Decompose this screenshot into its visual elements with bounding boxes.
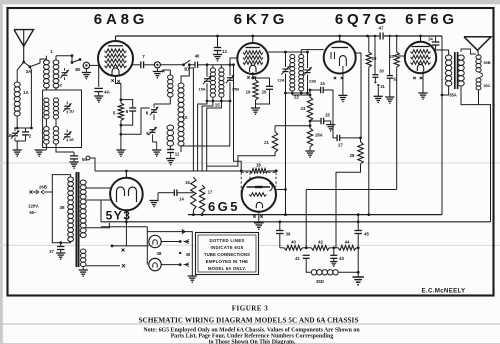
svg-text:44: 44 bbox=[345, 240, 350, 245]
svg-text:35A: 35A bbox=[449, 93, 457, 98]
svg-text:30: 30 bbox=[379, 69, 384, 74]
svg-text:38: 38 bbox=[157, 251, 162, 256]
svg-text:10: 10 bbox=[182, 115, 188, 120]
svg-text:47: 47 bbox=[379, 26, 384, 31]
svg-text:1B: 1B bbox=[7, 133, 12, 138]
svg-text:27: 27 bbox=[338, 143, 343, 148]
svg-text:17: 17 bbox=[208, 190, 213, 195]
svg-text:SCHEMATIC WIRING DIAGRAM MODEL: SCHEMATIC WIRING DIAGRAM MODELS 5C AND 6… bbox=[138, 317, 358, 325]
svg-text:26A: 26A bbox=[315, 133, 323, 138]
svg-text:28: 28 bbox=[350, 153, 355, 158]
svg-text:6A8G: 6A8G bbox=[94, 11, 148, 28]
svg-text:21: 21 bbox=[264, 140, 269, 145]
svg-text:MODEL 6A ONLY.: MODEL 6A ONLY. bbox=[208, 266, 246, 271]
svg-text:22B: 22B bbox=[309, 79, 316, 84]
svg-text:15: 15 bbox=[215, 103, 221, 108]
svg-text:6F6G: 6F6G bbox=[405, 11, 458, 28]
svg-text:TUBE CONNECTIONS: TUBE CONNECTIONS bbox=[204, 252, 250, 257]
svg-text:32: 32 bbox=[393, 77, 398, 82]
svg-text:INDICATE 6G5: INDICATE 6G5 bbox=[211, 245, 244, 250]
svg-text:120V.: 120V. bbox=[28, 204, 39, 209]
svg-text:1D: 1D bbox=[69, 109, 74, 114]
svg-text:22A: 22A bbox=[277, 78, 284, 83]
svg-text:14: 14 bbox=[179, 197, 184, 202]
svg-text:46: 46 bbox=[195, 54, 200, 59]
svg-text:33: 33 bbox=[389, 54, 394, 59]
svg-text:24: 24 bbox=[320, 81, 325, 86]
svg-text:39: 39 bbox=[286, 232, 291, 237]
svg-text:36: 36 bbox=[186, 252, 191, 257]
svg-text:23: 23 bbox=[301, 106, 306, 111]
svg-text:41: 41 bbox=[295, 256, 300, 261]
svg-text:16: 16 bbox=[185, 180, 190, 185]
svg-text:FIGURE 3: FIGURE 3 bbox=[232, 305, 268, 313]
svg-text:31: 31 bbox=[380, 84, 385, 89]
svg-text:13: 13 bbox=[222, 49, 227, 54]
svg-text:1C: 1C bbox=[57, 83, 62, 88]
svg-text:to Those Shown On This Diagram: to Those Shown On This Diagram. bbox=[209, 339, 296, 344]
svg-text:40: 40 bbox=[291, 240, 296, 245]
svg-text:34: 34 bbox=[428, 37, 433, 42]
svg-text:35B: 35B bbox=[483, 60, 490, 65]
svg-text:19: 19 bbox=[246, 90, 251, 95]
svg-text:DOTTED LINES: DOTTED LINES bbox=[209, 238, 244, 243]
svg-text:36: 36 bbox=[59, 205, 65, 210]
svg-text:6G5: 6G5 bbox=[208, 199, 240, 214]
svg-text:1E: 1E bbox=[69, 137, 74, 142]
svg-text:E.C.MᴄNEELY: E.C.MᴄNEELY bbox=[422, 288, 467, 295]
svg-text:37: 37 bbox=[49, 249, 54, 254]
svg-text:25: 25 bbox=[325, 113, 330, 118]
svg-text:35D: 35D bbox=[316, 279, 324, 284]
svg-text:20: 20 bbox=[262, 90, 267, 95]
svg-text:3D: 3D bbox=[184, 67, 189, 72]
svg-text:3A: 3A bbox=[26, 69, 32, 74]
svg-text:18: 18 bbox=[256, 163, 261, 168]
svg-text:15A: 15A bbox=[198, 87, 205, 92]
svg-text:4A: 4A bbox=[104, 90, 111, 95]
svg-text:50~: 50~ bbox=[29, 210, 37, 215]
svg-text:29: 29 bbox=[372, 56, 377, 61]
svg-text:6K7G: 6K7G bbox=[234, 11, 288, 28]
svg-text:3B: 3B bbox=[75, 67, 80, 72]
svg-text:45: 45 bbox=[364, 232, 369, 237]
svg-text:35C: 35C bbox=[483, 83, 490, 88]
svg-text:Note: 6G5 Employed Only on Mo: Note: 6G5 Employed Only on Model 6A Chas… bbox=[143, 327, 360, 333]
svg-text:EMPLOYED IN THE: EMPLOYED IN THE bbox=[206, 259, 248, 264]
svg-text:1A: 1A bbox=[23, 90, 29, 95]
svg-text:26B: 26B bbox=[39, 185, 47, 190]
svg-text:42: 42 bbox=[318, 240, 323, 245]
svg-text:11: 11 bbox=[175, 152, 180, 157]
svg-text:43: 43 bbox=[339, 256, 344, 261]
